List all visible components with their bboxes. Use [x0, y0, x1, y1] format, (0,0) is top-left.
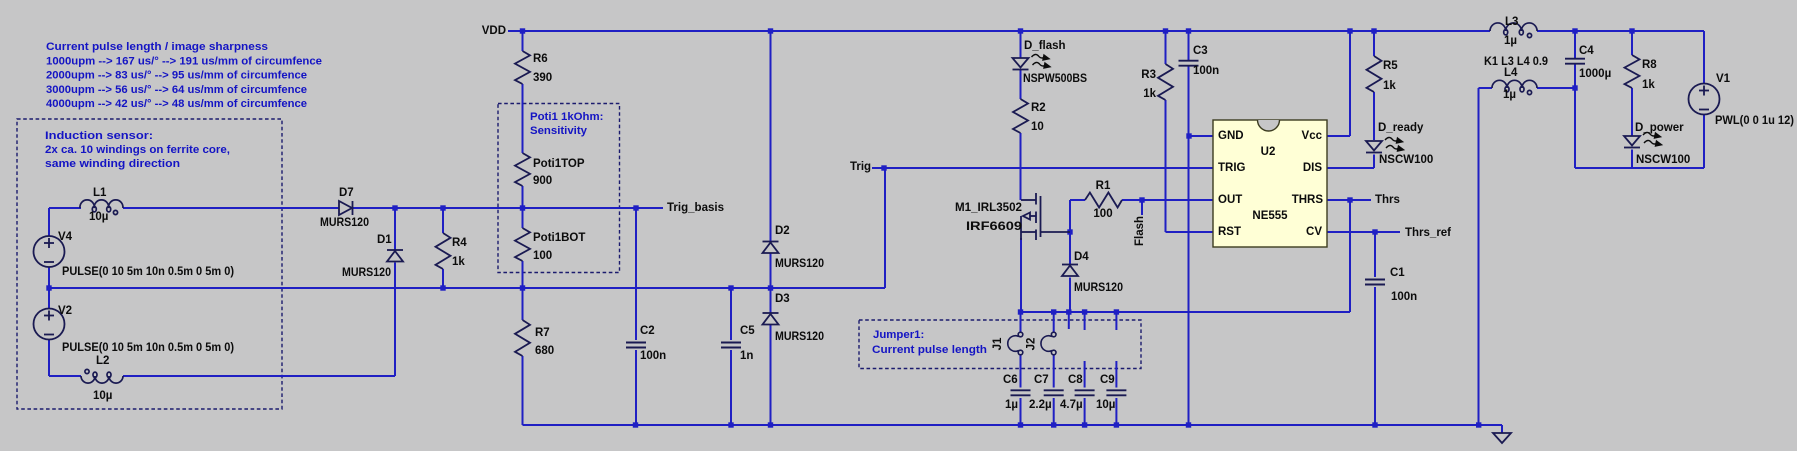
- junction GND/C3: [1186, 133, 1191, 138]
- svg-text:L2: L2: [96, 355, 109, 367]
- svg-text:NSPW500BS: NSPW500BS: [1023, 73, 1087, 85]
- svg-text:4.7µ: 4.7µ: [1060, 399, 1083, 411]
- svg-text:PWL(0 0 1u 12): PWL(0 0 1u 12): [1715, 115, 1794, 127]
- svg-text:10: 10: [1031, 121, 1044, 133]
- svg-text:100n: 100n: [640, 350, 666, 362]
- diode D3: [763, 313, 779, 325]
- voltage source V2: [34, 309, 65, 340]
- svg-text:GND: GND: [1218, 130, 1244, 142]
- svg-text:D2: D2: [775, 225, 790, 237]
- svg-text:NE555: NE555: [1252, 210, 1288, 222]
- svg-text:D3: D3: [775, 293, 790, 305]
- svg-text:same winding direction: same winding direction: [45, 158, 180, 170]
- svg-text:1k: 1k: [1143, 88, 1156, 100]
- LED D_flash: [1013, 58, 1029, 70]
- junction VDD/R6: [520, 28, 525, 33]
- svg-text:V2: V2: [58, 305, 72, 317]
- svg-text:1n: 1n: [740, 350, 753, 362]
- wire L4 link: [1479, 88, 1576, 425]
- svg-text:680: 680: [535, 345, 554, 357]
- junction VDD/C3: [1186, 28, 1191, 33]
- capacitor C7: [1044, 390, 1064, 395]
- resistor R7: [515, 320, 530, 356]
- junction Trig_basis/C2: [633, 205, 638, 210]
- voltage source V1: [1689, 84, 1720, 115]
- capacitor C6: [1011, 390, 1031, 395]
- junction gnd/GND-line: [1186, 422, 1191, 427]
- wire ground rail: [523, 425, 1503, 433]
- capacitor C1: [1365, 280, 1385, 285]
- diode D7: [339, 201, 353, 215]
- svg-text:D_power: D_power: [1635, 122, 1684, 134]
- svg-text:V1: V1: [1716, 73, 1731, 85]
- svg-text:C2: C2: [640, 325, 655, 337]
- svg-text:D_ready: D_ready: [1378, 122, 1424, 134]
- svg-text:R7: R7: [535, 327, 550, 339]
- wire D_flash/R2 branch: [1020, 31, 1022, 200]
- svg-text:J2: J2: [1026, 338, 1038, 351]
- svg-text:MURS120: MURS120: [1074, 282, 1123, 294]
- capacitor C2: [626, 343, 646, 348]
- svg-text:L4: L4: [1504, 67, 1518, 79]
- svg-text:Sensitivity: Sensitivity: [530, 125, 588, 137]
- wire V4-V2 link: [48, 268, 50, 309]
- wire CV pin: [1327, 231, 1400, 233]
- svg-text:L1: L1: [93, 187, 107, 199]
- resistor R6: [515, 51, 530, 84]
- svg-text:2000upm --> 83 us/° --> 95 us/: 2000upm --> 83 us/° --> 95 us/mm of circ…: [46, 70, 307, 82]
- junction VDD/D2: [768, 28, 773, 33]
- junction CV/C1: [1372, 229, 1377, 234]
- wire V2 bottom / L2 row: [49, 340, 395, 376]
- diode D4: [1062, 265, 1078, 277]
- junction VDD/C4: [1572, 28, 1577, 33]
- svg-text:J1: J1: [992, 337, 1004, 350]
- wire J2/C7 branch: [1053, 312, 1055, 425]
- wire J1/C6 branch: [1020, 312, 1022, 425]
- svg-text:Jumper1:: Jumper1:: [873, 329, 924, 341]
- junction gnd/C7: [1051, 422, 1056, 427]
- capacitor C9: [1106, 390, 1126, 395]
- junction VDD/R8: [1629, 28, 1634, 33]
- resistor Poti1TOP: [515, 153, 530, 186]
- junction gnd/C6: [1018, 422, 1023, 427]
- svg-text:C8: C8: [1068, 374, 1083, 386]
- svg-text:C4: C4: [1579, 45, 1594, 57]
- junction Trig/poti: [520, 285, 525, 290]
- svg-text:2.2µ: 2.2µ: [1029, 399, 1052, 411]
- capacitor C5: [721, 343, 741, 348]
- svg-text:C1: C1: [1390, 267, 1405, 279]
- wire C9 branch: [1115, 312, 1117, 425]
- svg-text:1000upm --> 167 us/° --> 191 u: 1000upm --> 167 us/° --> 191 us/mm of ci…: [46, 56, 322, 68]
- wire R3 branch: [1166, 31, 1214, 232]
- svg-text:Vcc: Vcc: [1302, 130, 1323, 142]
- svg-text:MURS120: MURS120: [775, 331, 824, 343]
- wire D2/D3 vertical: [770, 31, 772, 425]
- junction VDD/R5: [1371, 28, 1376, 33]
- junction rail/C9: [1114, 309, 1119, 314]
- junction OUT/Flash: [1139, 197, 1144, 202]
- svg-text:PULSE(0 10 5m 10n 0.5m 0 5m 0): PULSE(0 10 5m 10n 0.5m 0 5m 0): [62, 342, 234, 354]
- svg-text:1µ: 1µ: [1503, 89, 1516, 101]
- svg-text:D_flash: D_flash: [1024, 40, 1066, 52]
- jumper J2: [1041, 332, 1056, 355]
- wire GND pin: [1189, 135, 1213, 137]
- svg-text:R2: R2: [1031, 102, 1046, 114]
- junction VDD/Vcc: [1347, 28, 1352, 33]
- wire Trig net: [49, 168, 1213, 288]
- wire R8/D_power branch: [1631, 31, 1633, 168]
- svg-text:1k: 1k: [1383, 80, 1396, 92]
- transistor M1: [1021, 193, 1070, 240]
- junction Trig_basis/D1: [392, 205, 397, 210]
- junction gnd/C9: [1114, 422, 1119, 427]
- svg-text:MURS120: MURS120: [775, 258, 824, 270]
- junction rail/D4: [1066, 309, 1071, 314]
- svg-text:TRIG: TRIG: [1218, 162, 1246, 174]
- wire VDD rail: [508, 30, 1704, 32]
- svg-text:Thrs_ref: Thrs_ref: [1405, 227, 1451, 239]
- inductor L3: [1490, 23, 1537, 38]
- svg-text:R8: R8: [1642, 59, 1657, 71]
- svg-text:R4: R4: [452, 237, 467, 249]
- svg-text:V4: V4: [58, 231, 73, 243]
- svg-text:Trig_basis: Trig_basis: [667, 202, 724, 214]
- svg-text:D1: D1: [377, 234, 392, 246]
- capacitor C8: [1075, 390, 1095, 395]
- svg-text:U2: U2: [1261, 146, 1276, 158]
- junction Trig/C5: [728, 285, 733, 290]
- junction gnd/C5: [728, 422, 733, 427]
- svg-text:PULSE(0 10 5m 10n 0.5m 0 5m 0): PULSE(0 10 5m 10n 0.5m 0 5m 0): [62, 266, 234, 278]
- op-amp U1: NE555 timer U2 body: [1213, 120, 1327, 247]
- wire C2 branch: [635, 208, 637, 425]
- LED D_power: [1624, 136, 1640, 148]
- wire jumper rail: [1021, 200, 1350, 312]
- wire R6/poti/R7 vertical: [522, 31, 524, 425]
- svg-text:10µ: 10µ: [1096, 399, 1115, 411]
- svg-text:10µ: 10µ: [93, 390, 112, 402]
- svg-text:Flash: Flash: [1134, 216, 1146, 246]
- junction VDD/D_flash: [1018, 28, 1023, 33]
- junction rail/J2: [1051, 309, 1056, 314]
- svg-text:D7: D7: [339, 187, 354, 199]
- junction rail/C8: [1082, 309, 1087, 314]
- annotation box: Poti1: [498, 104, 620, 273]
- svg-text:THRS: THRS: [1292, 194, 1324, 206]
- wire sensor top: [49, 208, 339, 236]
- svg-text:NSCW100: NSCW100: [1636, 154, 1690, 166]
- svg-text:900: 900: [533, 175, 552, 187]
- inductor L1: [80, 200, 123, 215]
- diode D2: [763, 242, 779, 254]
- svg-text:Current pulse length / image s: Current pulse length / image sharpness: [46, 41, 268, 53]
- svg-text:Induction sensor:: Induction sensor:: [45, 130, 153, 142]
- svg-text:L3: L3: [1505, 16, 1518, 28]
- svg-text:1k: 1k: [452, 256, 465, 268]
- svg-text:1000µ: 1000µ: [1579, 68, 1611, 80]
- junction THRS: [1347, 197, 1352, 202]
- junction Trig_basis/poti: [520, 205, 525, 210]
- svg-text:DIS: DIS: [1303, 162, 1323, 174]
- svg-text:100n: 100n: [1193, 65, 1219, 77]
- svg-text:R5: R5: [1383, 60, 1398, 72]
- junction Trig/D2-D3: [768, 285, 773, 290]
- svg-text:C7: C7: [1034, 374, 1049, 386]
- wire M1 source to rail: [1020, 238, 1022, 312]
- svg-text:VDD: VDD: [482, 25, 506, 37]
- svg-text:MURS120: MURS120: [320, 217, 369, 229]
- inductor L4: [1492, 80, 1537, 94]
- junction gate/D4: [1067, 229, 1072, 234]
- wire THRS pin: [1327, 199, 1371, 201]
- resistor R1: [1085, 193, 1122, 208]
- wire Flash stub: [1141, 200, 1143, 215]
- resistor R5: [1367, 56, 1382, 92]
- wire Vcc pin: [1327, 31, 1350, 136]
- junction gnd/D3: [768, 422, 773, 427]
- svg-text:MURS120: MURS120: [342, 267, 391, 279]
- jumper J1: [1008, 332, 1023, 355]
- annotation box: induction sensor: [17, 119, 282, 409]
- junction gnd/C2: [633, 422, 638, 427]
- junction Trig label: [881, 165, 886, 170]
- capacitor C4: [1565, 59, 1585, 64]
- junction Trig_basis/R4: [440, 205, 445, 210]
- svg-text:Poti1BOT: Poti1BOT: [533, 232, 585, 244]
- junction gnd/C8: [1082, 422, 1087, 427]
- resistor R3: [1158, 64, 1173, 100]
- resistor R2: [1013, 99, 1028, 133]
- inductor L2: [81, 369, 123, 383]
- svg-text:Thrs: Thrs: [1375, 194, 1400, 206]
- svg-text:IRF6609: IRF6609: [966, 221, 1022, 233]
- voltage source V4: [34, 236, 65, 267]
- wire D1 vertical: [394, 208, 396, 376]
- wire V1 branch: [1575, 31, 1704, 168]
- svg-text:4000upm --> 42 us/° --> 48 us/: 4000upm --> 42 us/° --> 48 us/mm of circ…: [46, 98, 307, 110]
- svg-text:Poti1 1kOhm:: Poti1 1kOhm:: [530, 111, 603, 123]
- wire C5 branch: [730, 288, 732, 425]
- svg-text:R3: R3: [1141, 69, 1156, 81]
- wire Trig_basis: [353, 207, 664, 209]
- svg-text:2x ca. 10 windings on ferrite: 2x ca. 10 windings on ferrite core,: [45, 144, 230, 156]
- svg-text:OUT: OUT: [1218, 194, 1242, 206]
- svg-text:C5: C5: [740, 325, 755, 337]
- resistor R4: [436, 233, 451, 269]
- svg-text:Current pulse length: Current pulse length: [872, 344, 987, 356]
- junction V4/V2: [46, 285, 51, 290]
- wire C8 branch: [1084, 312, 1086, 425]
- svg-text:C3: C3: [1193, 45, 1208, 57]
- capacitor C3: [1179, 61, 1199, 66]
- diode D1: [387, 250, 403, 262]
- svg-text:1µ: 1µ: [1504, 35, 1517, 47]
- svg-text:CV: CV: [1306, 226, 1322, 238]
- resistor R8: [1625, 55, 1640, 88]
- svg-text:390: 390: [533, 72, 552, 84]
- wire C4 branch: [1574, 31, 1576, 168]
- svg-text:D4: D4: [1074, 251, 1089, 263]
- wire C3/GND vertical: [1188, 31, 1190, 425]
- svg-text:Trig: Trig: [850, 161, 871, 173]
- svg-text:100: 100: [1093, 208, 1112, 220]
- wire R5/D_ready branch: [1327, 31, 1374, 168]
- svg-text:1k: 1k: [1642, 79, 1655, 91]
- svg-text:C9: C9: [1100, 374, 1115, 386]
- svg-text:RST: RST: [1218, 226, 1241, 238]
- wire D4 open stub: [1068, 312, 1070, 329]
- LED D_ready: [1366, 141, 1382, 153]
- resistor Poti1BOT: [515, 228, 530, 261]
- svg-text:R1: R1: [1096, 180, 1111, 192]
- wire OUT/R1: [1070, 200, 1213, 232]
- junction gnd/L4-line: [1476, 422, 1481, 427]
- svg-text:M1_IRL3502: M1_IRL3502: [955, 202, 1022, 214]
- svg-text:100: 100: [533, 250, 552, 262]
- wire C1 branch: [1374, 232, 1376, 425]
- svg-text:R6: R6: [533, 53, 548, 65]
- wire D4 vertical: [1069, 232, 1071, 312]
- svg-text:3000upm --> 56 us/° --> 64 us/: 3000upm --> 56 us/° --> 64 us/mm of circ…: [46, 84, 307, 96]
- svg-text:Poti1TOP: Poti1TOP: [533, 158, 585, 170]
- junction Trig/R4: [440, 285, 445, 290]
- svg-text:100n: 100n: [1391, 291, 1417, 303]
- svg-text:C6: C6: [1003, 374, 1018, 386]
- junction rail/M1: [1018, 309, 1023, 314]
- ground symbol: [1493, 433, 1511, 443]
- annotation box: Jumper1: [859, 320, 1141, 369]
- junction gnd/C1: [1372, 422, 1377, 427]
- svg-text:NSCW100: NSCW100: [1379, 154, 1433, 166]
- junction VDD/R3: [1163, 28, 1168, 33]
- svg-text:10µ: 10µ: [89, 211, 108, 223]
- wire R4 branch: [442, 208, 444, 288]
- svg-text:1µ: 1µ: [1005, 399, 1018, 411]
- junction L4/C4: [1572, 85, 1577, 90]
